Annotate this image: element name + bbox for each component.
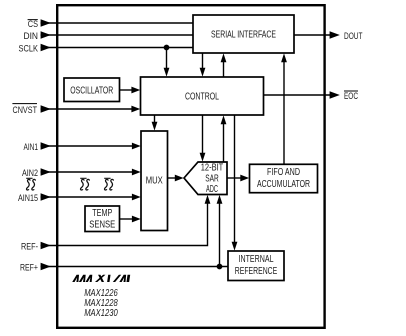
overline CNVST xyxy=(12,103,37,105)
wire CS line xyxy=(41,22,194,24)
wire REF+ branch up to ADC xyxy=(219,203,221,267)
svg-text:REF-: REF- xyxy=(21,242,38,252)
svg-text:CNVST: CNVST xyxy=(13,105,38,115)
svg-text:EOC: EOC xyxy=(344,91,358,101)
wire TEMP SENSE to MUX xyxy=(120,218,134,220)
svg-text:MUX: MUX xyxy=(146,175,163,187)
arrow down into MUX top xyxy=(152,122,158,131)
arrow up into ADC bottom from REF+ xyxy=(217,195,223,204)
chip outer border xyxy=(57,5,324,328)
pin arrow AIN1 xyxy=(41,142,51,150)
wire EOC line xyxy=(264,94,330,96)
arrow into MUX left from TEMP SENSE xyxy=(132,216,141,223)
overline EOC xyxy=(344,90,358,92)
svg-text:AIN2: AIN2 xyxy=(22,168,38,178)
svg-text:SERIAL INTERFACE: SERIAL INTERFACE xyxy=(211,29,276,41)
wire CNVST line xyxy=(41,108,133,110)
wire ADC to CONTROL up xyxy=(223,123,225,162)
wire REF- line xyxy=(41,203,208,246)
arrow up into ADC bottom from REF- xyxy=(205,195,211,204)
box SERIAL INTERFACE xyxy=(193,15,294,53)
arrow up into SERIAL INTERFACE bottom from FIFO xyxy=(281,53,287,62)
svg-text:REFERENCE: REFERENCE xyxy=(235,266,278,277)
channel break squiggle pair 1 (outside border) xyxy=(26,178,35,190)
arrow down into CONTROL top from SCLK xyxy=(164,68,170,77)
wire FIFO to SERIAL INTERFACE xyxy=(283,61,285,164)
wire ADC to FIFO xyxy=(227,177,241,179)
box FIFO AND ACCUMULATOR xyxy=(250,164,318,192)
pin arrow AIN15 xyxy=(41,193,51,201)
pin arrow EOC xyxy=(330,91,340,99)
arrow down into CONTROL top xyxy=(200,68,206,77)
svg-text:TEMP: TEMP xyxy=(92,208,112,219)
svg-text:12-BIT: 12-BIT xyxy=(201,163,224,174)
wire CONTROL to ADC down xyxy=(202,115,204,154)
svg-text:AIN15: AIN15 xyxy=(18,193,38,203)
arrow into MUX left AIN2 xyxy=(132,169,141,176)
wire MUX to ADC xyxy=(168,177,176,179)
channel break squiggle pair 2 xyxy=(80,178,89,190)
svg-text:AIN1: AIN1 xyxy=(24,142,39,152)
svg-text:INTERNAL: INTERNAL xyxy=(239,254,274,265)
svg-text:CONTROL: CONTROL xyxy=(185,91,219,103)
arrow up into SERIAL INTERFACE bottom xyxy=(221,53,227,62)
wire SCLK branch to CONTROL xyxy=(166,48,168,70)
svg-text:DIN: DIN xyxy=(24,31,39,41)
wire CONTROL to INTERNAL REFERENCE xyxy=(234,115,236,243)
pin arrow AIN2 xyxy=(41,168,51,176)
arrow into MUX left AIN15 xyxy=(132,194,141,201)
arrow down into ADC top xyxy=(200,153,206,162)
svg-text:FIFO AND: FIFO AND xyxy=(267,167,300,178)
arrow down into INTERNAL REFERENCE top xyxy=(232,242,238,251)
overline CS xyxy=(28,19,38,21)
arrow up into CONTROL bottom xyxy=(221,115,227,124)
junction dot on SCLK xyxy=(164,45,170,51)
arrow into MUX left AIN1 xyxy=(132,143,141,150)
svg-text:SAR: SAR xyxy=(205,174,219,185)
wire CONTROL to MUX xyxy=(154,115,156,123)
pin arrow REF- xyxy=(41,242,51,250)
svg-text:CS: CS xyxy=(28,19,38,29)
svg-text:REF+: REF+ xyxy=(20,263,38,273)
channel break squiggle pair 3 xyxy=(104,178,113,190)
arrow into ADC point xyxy=(175,175,184,182)
pin arrow DIN xyxy=(41,31,51,39)
wire SERIAL INTERFACE to CONTROL xyxy=(202,53,204,69)
box TEMP SENSE xyxy=(85,206,120,232)
svg-text:SENSE: SENSE xyxy=(89,220,115,231)
svg-text:MAX1230: MAX1230 xyxy=(84,308,118,319)
svg-text:ADC: ADC xyxy=(206,184,218,195)
wire DIN line xyxy=(41,34,194,36)
svg-text:OSCILLATOR: OSCILLATOR xyxy=(70,85,113,97)
pin arrow CNVST xyxy=(41,105,51,113)
wire AIN2 line xyxy=(41,171,134,173)
wire SCLK line xyxy=(41,47,194,49)
pin arrow REF+ xyxy=(41,263,51,271)
pin arrow CS xyxy=(41,19,51,27)
box OSCILLATOR xyxy=(64,78,120,102)
wire CONTROL to SERIAL INTERFACE xyxy=(223,61,225,77)
wire AIN1 line xyxy=(41,145,134,147)
ADC pentagon 12-BIT SAR ADC xyxy=(184,162,227,195)
junction dot on REF+ xyxy=(217,264,223,270)
pin arrow DOUT xyxy=(330,31,340,39)
svg-text:DOUT: DOUT xyxy=(344,31,363,41)
box CONTROL xyxy=(141,77,264,115)
wire DOUT line xyxy=(294,34,330,36)
wire OSCILLATOR to CONTROL xyxy=(120,89,133,91)
arrow into FIFO left xyxy=(240,175,249,182)
wire REF+ line xyxy=(41,266,229,268)
box MUX xyxy=(141,131,168,231)
pin arrow SCLK xyxy=(41,44,51,52)
svg-text:SCLK: SCLK xyxy=(19,44,39,54)
arrow into CONTROL left from CNVST xyxy=(131,106,140,113)
MAXIM logo xyxy=(72,275,130,282)
wire AIN15 line xyxy=(41,196,134,198)
svg-text:ACCUMULATOR: ACCUMULATOR xyxy=(257,179,310,190)
arrow into CONTROL left from OSCILLATOR xyxy=(131,87,140,94)
box INTERNAL REFERENCE xyxy=(228,251,284,281)
